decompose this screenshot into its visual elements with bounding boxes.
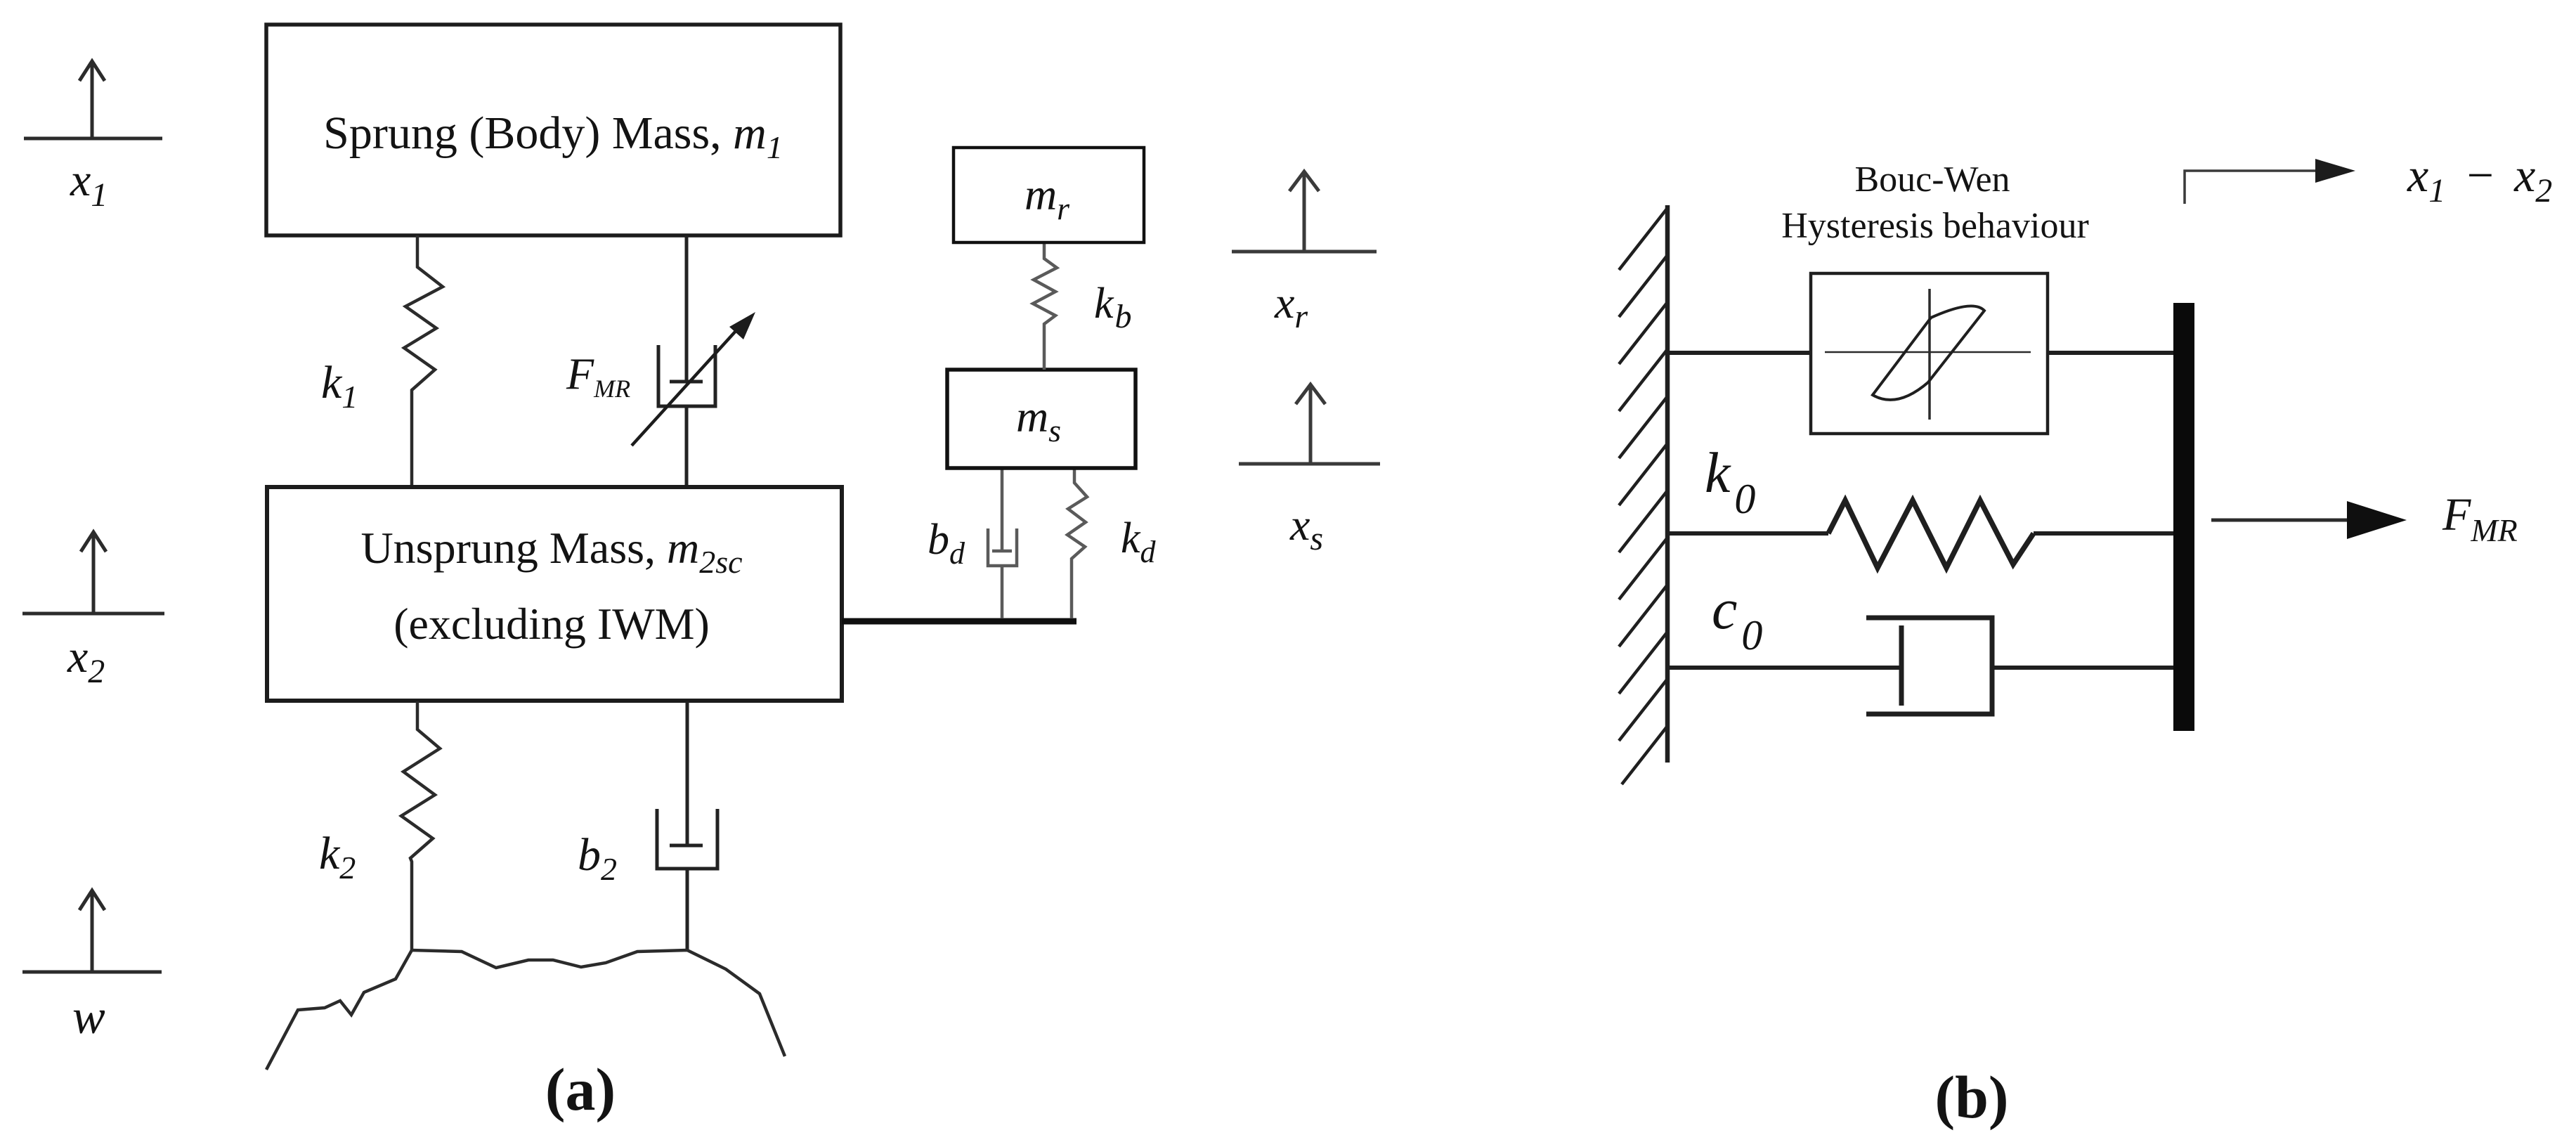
mass mr box xyxy=(954,148,1144,242)
svg-text:w: w xyxy=(72,990,105,1044)
wire wall to damper c0 xyxy=(1670,666,1900,670)
wire damper c0 to bar xyxy=(1992,666,2173,670)
reference arrow x2 xyxy=(22,532,164,614)
wire wall to Bouc-Wen box xyxy=(1670,351,1811,355)
reference arrow xs xyxy=(1239,384,1380,464)
MR damper FMR xyxy=(658,235,715,487)
rigid bar xyxy=(2173,303,2194,731)
damper bd xyxy=(988,468,1017,618)
svg-text:Sprung (Body) Mass, m1: Sprung (Body) Mass, m1 xyxy=(323,108,783,165)
svg-text:x1−x2: x1−x2 xyxy=(2407,148,2552,209)
reference arrow x1 xyxy=(24,61,162,138)
spring k1 xyxy=(404,235,443,487)
svg-text:Unsprung Mass, m2sc: Unsprung Mass, m2sc xyxy=(360,523,742,580)
damper c0 xyxy=(1866,618,1992,714)
displacement bracket arrow xyxy=(2185,159,2355,204)
spring k0 xyxy=(1828,500,2034,568)
svg-text:(a): (a) xyxy=(545,1056,616,1123)
wire Bouc-Wen box to bar xyxy=(2048,351,2173,355)
reference arrow w xyxy=(22,890,162,972)
wire wall to spring k0 xyxy=(1670,531,1828,536)
spring kb xyxy=(1033,242,1057,370)
connector bar to dynamic absorber xyxy=(842,618,1076,625)
svg-text:(b): (b) xyxy=(1934,1063,2008,1131)
MR damper diagonal arrow xyxy=(632,312,755,446)
unsprung mass m2sc box xyxy=(267,487,842,701)
svg-text:(excluding IWM): (excluding IWM) xyxy=(393,599,710,649)
force arrow FMR xyxy=(2211,501,2407,539)
reference arrow xr xyxy=(1232,171,1377,252)
spring k2 xyxy=(401,701,440,950)
mass ms box xyxy=(947,370,1136,468)
Bouc-Wen hysteresis box xyxy=(1811,273,2048,434)
damper b2 xyxy=(657,701,717,950)
sprung mass m1 box xyxy=(266,25,840,235)
spring kd xyxy=(1067,468,1087,618)
fixed wall xyxy=(1619,205,1667,784)
ground profile xyxy=(266,950,785,1070)
wire spring k0 to bar xyxy=(2034,531,2173,536)
svg-text:Bouc-Wen: Bouc-Wen xyxy=(1854,160,2010,200)
svg-text:Hysteresis behaviour: Hysteresis behaviour xyxy=(1781,206,2089,246)
